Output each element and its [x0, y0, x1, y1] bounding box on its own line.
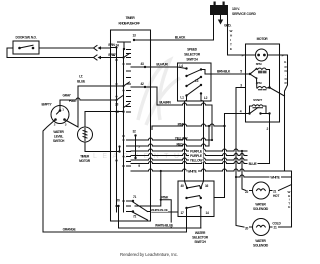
svg-text:PURPLE: PURPLE	[190, 150, 203, 154]
timer box	[111, 30, 151, 221]
wire cold left	[250, 226, 253, 228]
svg-text:26: 26	[115, 110, 119, 114]
wire L3 hook exit to brn-blk	[201, 70, 211, 75]
wire timer motor top	[85, 112, 111, 128]
wire motor4 vertical	[214, 114, 225, 198]
svg-text:BU-BRN: BU-BRN	[159, 101, 171, 105]
svg-text:GRAY: GRAY	[62, 94, 71, 98]
svg-text:WATER: WATER	[255, 203, 266, 207]
label purple 2	[189, 153, 204, 158]
svg-text:GRD.: GRD.	[224, 24, 231, 28]
svg-text:YELLOW: YELLOW	[175, 137, 189, 141]
wire start row	[246, 113, 270, 115]
water selector arm 2	[187, 196, 201, 198]
node pink junction	[223, 125, 225, 127]
label white-blue	[154, 223, 174, 228]
svg-text:21: 21	[273, 226, 277, 230]
connector chevron bottom	[94, 55, 98, 60]
label cold 21	[273, 225, 279, 230]
wire RED row	[131, 145, 209, 147]
motor winding low	[257, 78, 267, 90]
cold solenoid coil	[257, 225, 266, 227]
svg-text:14: 14	[205, 211, 209, 215]
svg-text:BLUE: BLUE	[77, 80, 86, 84]
door switch contacts	[18, 47, 34, 50]
wire YELLOW row	[131, 139, 212, 141]
wire staircase to white-blue row	[161, 200, 171, 228]
svg-text:WHITE-BLUE: WHITE-BLUE	[155, 223, 174, 227]
timer cam contacts column	[127, 50, 131, 113]
svg-text:MOTOR: MOTOR	[257, 37, 269, 41]
timer bottom contacts	[127, 201, 131, 212]
svg-text:120 V.: 120 V.	[232, 7, 240, 11]
svg-text:WATER: WATER	[195, 231, 206, 235]
label purple 1	[189, 149, 204, 154]
wire black drop from plug	[213, 15, 215, 40]
water selector arm 3	[187, 205, 201, 208]
svg-text:SOLENOID: SOLENOID	[253, 207, 269, 211]
svg-text:L2: L2	[204, 96, 208, 100]
timer bottom switch arm 72	[132, 212, 148, 221]
svg-text:P: P	[242, 54, 244, 58]
wire WHITE row 1	[131, 170, 285, 172]
svg-text:EMPTY: EMPTY	[42, 103, 53, 107]
door switch S1 box	[13, 41, 39, 54]
svg-text:17: 17	[112, 53, 116, 57]
node rail dots	[115, 46, 124, 207]
svg-text:42: 42	[140, 82, 144, 86]
svg-text:P: P	[282, 54, 284, 58]
svg-text:13: 13	[132, 34, 136, 38]
node white2 start	[235, 176, 237, 178]
svg-text:70: 70	[116, 199, 120, 203]
connector arrow top	[101, 47, 106, 49]
node timer terminal 43	[144, 66, 146, 68]
bump bu-brn at 184	[183, 103, 187, 105]
timer motor symbol	[83, 129, 87, 141]
svg-text:SWITCH: SWITCH	[53, 139, 65, 143]
svg-text:SELECTOR: SELECTOR	[184, 53, 201, 57]
motor speed contact	[246, 69, 257, 78]
wire WHITE-BLUE row	[119, 227, 201, 229]
timer motor circle	[78, 127, 93, 142]
svg-text:71: 71	[133, 195, 137, 199]
node timer terminal 42	[144, 86, 146, 88]
node timer terminal 70	[117, 205, 119, 207]
speed selector arm 2	[187, 77, 202, 86]
wire lt-blue vertical to pin3	[65, 86, 79, 127]
label white row1	[187, 169, 199, 174]
wire hot left	[250, 190, 253, 192]
water level switch pins	[54, 109, 66, 121]
node purple1 to v242	[241, 150, 243, 152]
wire timer motor bottom	[85, 142, 111, 152]
svg-text:21: 21	[273, 190, 277, 194]
wire selector 17 drop	[186, 208, 188, 232]
svg-text:WHITE-BLUE: WHITE-BLUE	[151, 208, 168, 212]
node timer terminal 13	[133, 39, 135, 41]
wire door switch left loop	[7, 48, 13, 58]
wire timer exit 212 row	[148, 211, 179, 214]
water selector contacts	[185, 187, 202, 209]
hot solenoid circle	[253, 182, 270, 199]
wire cold right	[270, 226, 292, 228]
svg-text:L1: L1	[180, 96, 184, 100]
timer rail B	[123, 49, 125, 212]
svg-text:L4: L4	[179, 64, 183, 68]
svg-text:4PM: 4PM	[256, 81, 262, 85]
wire ORANGE row	[43, 231, 186, 233]
svg-text:43: 43	[140, 62, 144, 66]
node yellow to bu-brn drop	[211, 139, 213, 141]
svg-text:SWITCH: SWITCH	[194, 240, 206, 244]
wire L4 entry	[178, 67, 187, 69]
wire white bus right	[280, 55, 292, 227]
svg-text:TIMER: TIMER	[80, 155, 90, 159]
wire L1 drop	[185, 96, 188, 189]
svg-text:TIMER: TIMER	[126, 16, 136, 20]
speed selector arm 3	[187, 85, 202, 96]
svg-text:WATER: WATER	[53, 130, 64, 134]
svg-text:E: E	[288, 205, 290, 209]
svg-text:W: W	[230, 29, 233, 33]
wire PINK row	[152, 126, 225, 130]
label blue	[248, 161, 258, 166]
svg-text:24: 24	[115, 44, 119, 48]
speed selector switch box	[178, 63, 212, 101]
hot solenoid coil	[257, 189, 266, 191]
wire BU-BRN timer42 route	[145, 87, 212, 105]
svg-text:KNOB-PUSH OFF: KNOB-PUSH OFF	[118, 22, 140, 26]
wire PURPLE row 1	[131, 150, 247, 152]
svg-text:Rendered by LeadVenture, Inc.: Rendered by LeadVenture, Inc.	[120, 252, 178, 257]
wire BLACK main from timer 13 to plug drop	[134, 39, 214, 41]
timer switch arms upper	[117, 54, 130, 108]
wire motor terminal 2 drop	[269, 114, 271, 164]
svg-text:PINK: PINK	[161, 196, 169, 200]
wire timer 70 drop to white-blue	[118, 206, 120, 228]
wire BRN top to timer	[39, 47, 111, 49]
svg-text:RED: RED	[176, 143, 183, 147]
svg-text:WHITE: WHITE	[187, 170, 197, 174]
svg-text:DOOR SW. N.O.: DOOR SW. N.O.	[16, 36, 37, 40]
motor start switch	[250, 108, 259, 114]
connector arrow bottom	[101, 57, 106, 59]
timer rail A	[116, 48, 118, 213]
motor protector circle	[256, 49, 268, 61]
ground arrow under plug	[218, 20, 223, 25]
svg-text:BLACK: BLACK	[175, 35, 186, 39]
wire BRN-BLK selector to motor 5	[211, 73, 246, 75]
wire GRAY row from pin1	[60, 100, 111, 111]
svg-text:SELECTOR: SELECTOR	[192, 236, 209, 240]
svg-text:SWITCH: SWITCH	[186, 58, 198, 62]
timer contact bar 24	[118, 42, 131, 49]
wire LT BLUE row	[78, 85, 111, 87]
svg-text:17: 17	[180, 211, 184, 215]
motor box	[246, 44, 280, 122]
wire winding high right hook	[266, 70, 269, 88]
bump bu-brn at 203	[202, 103, 206, 105]
svg-text:6PM: 6PM	[256, 62, 262, 66]
svg-text:L3: L3	[195, 79, 199, 83]
svg-text:PINK: PINK	[178, 123, 186, 127]
svg-text:32: 32	[132, 130, 136, 134]
svg-text:YELLOW: YELLOW	[190, 159, 204, 163]
label yellow 2	[189, 158, 204, 163]
motor winding high	[258, 68, 267, 73]
water level switch circle	[51, 106, 69, 124]
motor start coil	[252, 105, 263, 108]
node red-pink junction	[208, 125, 210, 127]
svg-text:72: 72	[133, 215, 137, 219]
svg-text:MOTOR: MOTOR	[79, 159, 91, 163]
svg-text:16: 16	[205, 184, 209, 188]
wire motor terminal 3	[236, 87, 246, 89]
wire diagonal to white bus	[270, 88, 285, 97]
cold solenoid circle	[253, 219, 270, 236]
svg-text:BRN-BLK: BRN-BLK	[217, 70, 231, 74]
svg-text:PURPLE: PURPLE	[190, 154, 203, 158]
svg-text:SOLENOID: SOLENOID	[253, 244, 269, 248]
wire timer exit 206 rise	[135, 171, 161, 206]
speed selector arm 1	[187, 70, 202, 77]
wire BLUE row	[131, 163, 270, 165]
svg-text:E: E	[230, 47, 232, 51]
svg-text:BU-PUR: BU-PUR	[156, 63, 168, 67]
wire vertical 242 purple to hot22	[242, 151, 246, 191]
wire red rise to pink	[208, 126, 210, 146]
svg-text:22: 22	[245, 190, 249, 194]
node motor junction	[268, 86, 271, 89]
label white row2	[270, 175, 282, 180]
wire WHITE row 2	[236, 176, 292, 178]
water selector switch box	[178, 181, 214, 217]
wire white drop from plug to motor	[228, 15, 246, 55]
svg-text:WATER: WATER	[255, 239, 266, 243]
door switch arm	[20, 45, 34, 48]
svg-text:40: 40	[180, 184, 184, 188]
wire bu-brn drop to yellow	[211, 105, 213, 140]
timer bottom switch arm 71	[132, 201, 148, 212]
wire L2 drop	[201, 94, 204, 189]
crossover bump gray	[76, 98, 80, 100]
svg-text:28: 28	[115, 103, 119, 107]
watermark swirl	[138, 60, 180, 125]
wire BU-PUR timer43 to L4	[145, 66, 178, 68]
svg-text:20: 20	[245, 227, 249, 231]
wire hot right	[270, 185, 292, 191]
service cord plug block	[210, 2, 228, 16]
svg-text:SPEED: SPEED	[187, 48, 198, 52]
svg-text:HOT: HOT	[273, 194, 279, 198]
wire winding low right	[266, 87, 269, 90]
wire protector stems	[246, 54, 280, 56]
node exit-white junction	[160, 170, 162, 172]
wire BRN bottom to timer	[7, 57, 111, 59]
wire entry stubs to rails	[111, 48, 146, 152]
svg-text:ORANGE: ORANGE	[63, 228, 77, 232]
wire PURPLE row 2	[131, 155, 247, 157]
svg-text:FULL: FULL	[69, 99, 77, 103]
svg-text:BLUE: BLUE	[249, 162, 258, 166]
wire start coil hooks	[250, 106, 267, 114]
svg-text:START: START	[253, 98, 262, 102]
wire vertical 236 motor3 to cold	[236, 88, 244, 228]
wire pin2 down to orange	[43, 120, 56, 233]
connector chevron top	[94, 46, 98, 51]
label white-blue upper	[151, 208, 168, 212]
node stair junction	[160, 199, 162, 201]
svg-text:WHITE: WHITE	[270, 176, 280, 180]
timer mid contacts	[127, 140, 131, 166]
timer inner rail 32	[135, 136, 137, 159]
wire motor terminal 4	[225, 113, 246, 115]
svg-text:LEVEL: LEVEL	[54, 135, 63, 139]
speed selector contacts	[185, 67, 202, 96]
water selector arm 1	[187, 186, 201, 188]
water level arm	[57, 111, 61, 115]
wire YELLOW row 2	[131, 159, 247, 161]
svg-text:SERVICE CORD: SERVICE CORD	[232, 12, 257, 16]
wire selector 14 drop	[200, 208, 202, 229]
svg-text:LT.: LT.	[79, 75, 83, 79]
